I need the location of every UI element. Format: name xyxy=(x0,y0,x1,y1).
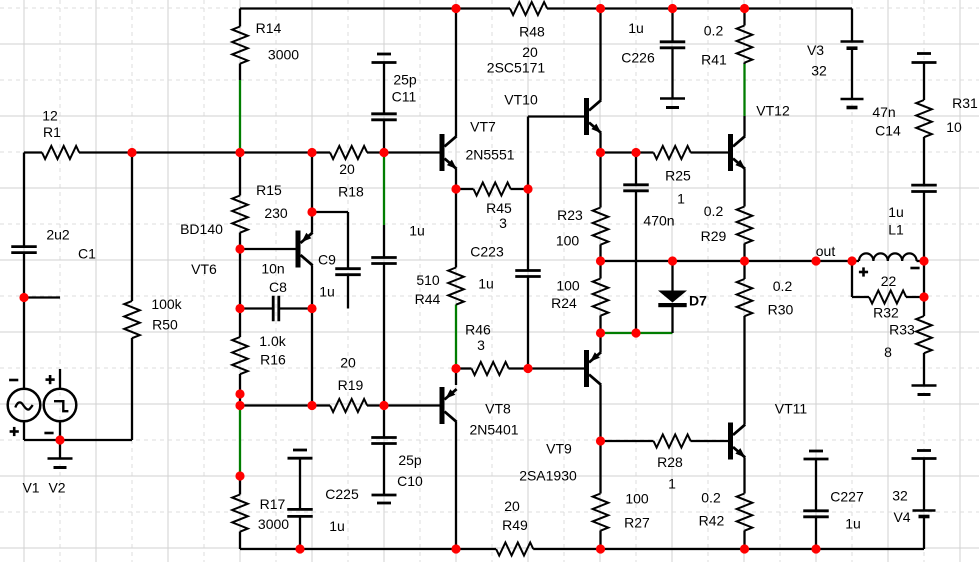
svg-text:1u: 1u xyxy=(478,276,494,292)
svg-text:R18: R18 xyxy=(338,184,364,200)
svg-text:D7: D7 xyxy=(689,293,707,309)
svg-text:1u: 1u xyxy=(409,223,425,239)
svg-text:2N5551: 2N5551 xyxy=(465,147,514,163)
svg-text:25p: 25p xyxy=(398,452,422,468)
svg-text:C227: C227 xyxy=(830,489,864,505)
svg-text:VT6: VT6 xyxy=(191,261,217,277)
svg-text:1u: 1u xyxy=(628,20,644,36)
svg-text:20: 20 xyxy=(339,161,355,177)
svg-text:1.0k: 1.0k xyxy=(259,333,286,349)
svg-text:L1: L1 xyxy=(888,222,904,238)
svg-text:V2: V2 xyxy=(48,480,65,496)
svg-text:C1: C1 xyxy=(78,246,96,262)
svg-text:R25: R25 xyxy=(665,168,691,184)
svg-text:C8: C8 xyxy=(269,279,287,295)
svg-text:R14: R14 xyxy=(256,20,282,36)
svg-text:R44: R44 xyxy=(415,291,441,307)
svg-text:20: 20 xyxy=(504,498,520,514)
svg-text:1u: 1u xyxy=(329,518,345,534)
svg-text:V4: V4 xyxy=(893,509,910,525)
svg-text:10: 10 xyxy=(946,119,962,135)
svg-text:R23: R23 xyxy=(557,207,583,223)
svg-text:C225: C225 xyxy=(325,486,359,502)
svg-text:R24: R24 xyxy=(551,295,577,311)
svg-text:1u: 1u xyxy=(888,204,904,220)
svg-text:R46: R46 xyxy=(465,322,491,338)
svg-text:230: 230 xyxy=(264,205,288,221)
svg-text:0.2: 0.2 xyxy=(701,490,721,506)
svg-text:47n: 47n xyxy=(872,104,895,120)
svg-text:100k: 100k xyxy=(151,296,182,312)
svg-text:BD140: BD140 xyxy=(180,221,223,237)
svg-text:1u: 1u xyxy=(319,284,335,300)
svg-text:VT11: VT11 xyxy=(775,401,808,417)
svg-text:R29: R29 xyxy=(701,228,727,244)
svg-text:VT9: VT9 xyxy=(546,441,572,457)
svg-text:R32: R32 xyxy=(873,305,899,321)
svg-text:R16: R16 xyxy=(260,352,286,368)
svg-text:R15: R15 xyxy=(256,182,282,198)
svg-text:C226: C226 xyxy=(621,50,655,66)
svg-text:100: 100 xyxy=(625,491,649,507)
svg-text:R31: R31 xyxy=(952,95,978,111)
svg-text:3000: 3000 xyxy=(258,516,289,532)
svg-text:2u2: 2u2 xyxy=(46,227,70,243)
svg-text:100: 100 xyxy=(556,233,580,249)
svg-text:C10: C10 xyxy=(397,473,423,489)
svg-text:12: 12 xyxy=(42,108,58,124)
svg-text:VT7: VT7 xyxy=(470,119,496,135)
svg-text:VT12: VT12 xyxy=(756,103,790,119)
svg-text:22: 22 xyxy=(881,273,897,289)
svg-text:3: 3 xyxy=(477,337,485,353)
svg-text:2N5401: 2N5401 xyxy=(469,422,518,438)
svg-text:R45: R45 xyxy=(486,200,512,216)
svg-text:R30: R30 xyxy=(768,302,794,318)
svg-text:3000: 3000 xyxy=(268,47,299,63)
svg-text:20: 20 xyxy=(522,44,538,60)
svg-text:8: 8 xyxy=(884,344,892,360)
svg-text:R50: R50 xyxy=(152,317,178,333)
svg-text:0.2: 0.2 xyxy=(704,23,724,39)
svg-text:R1: R1 xyxy=(43,124,61,140)
svg-text:C14: C14 xyxy=(875,123,901,139)
svg-text:C11: C11 xyxy=(392,89,417,105)
svg-text:C223: C223 xyxy=(470,244,504,260)
svg-text:25p: 25p xyxy=(393,72,417,88)
svg-text:20: 20 xyxy=(340,355,356,371)
svg-text:3: 3 xyxy=(499,215,507,231)
svg-text:V3: V3 xyxy=(807,42,824,58)
svg-text:1u: 1u xyxy=(845,516,861,532)
svg-text:VT10: VT10 xyxy=(504,92,538,108)
svg-text:out: out xyxy=(816,243,836,259)
svg-text:2SC5171: 2SC5171 xyxy=(487,60,546,76)
svg-text:470n: 470n xyxy=(643,213,674,229)
svg-text:R41: R41 xyxy=(701,52,727,68)
svg-text:V1: V1 xyxy=(22,480,39,496)
svg-text:2SA1930: 2SA1930 xyxy=(519,468,577,484)
svg-text:R17: R17 xyxy=(260,496,286,512)
svg-text:R27: R27 xyxy=(624,515,650,531)
svg-text:1: 1 xyxy=(677,191,685,207)
svg-text:R42: R42 xyxy=(699,513,725,529)
svg-text:0.2: 0.2 xyxy=(773,278,793,294)
svg-text:R33: R33 xyxy=(889,322,915,338)
svg-text:R19: R19 xyxy=(338,377,364,393)
svg-text:R49: R49 xyxy=(502,517,528,533)
svg-text:VT8: VT8 xyxy=(485,401,511,417)
svg-text:32: 32 xyxy=(892,488,908,504)
svg-text:1: 1 xyxy=(668,476,676,492)
svg-text:0.2: 0.2 xyxy=(704,203,724,219)
svg-text:100: 100 xyxy=(556,278,580,294)
svg-text:R28: R28 xyxy=(657,454,683,470)
svg-text:32: 32 xyxy=(811,63,827,79)
svg-text:510: 510 xyxy=(416,272,440,288)
svg-text:10n: 10n xyxy=(261,261,284,277)
svg-text:C9: C9 xyxy=(318,252,336,268)
svg-text:R48: R48 xyxy=(519,24,545,40)
